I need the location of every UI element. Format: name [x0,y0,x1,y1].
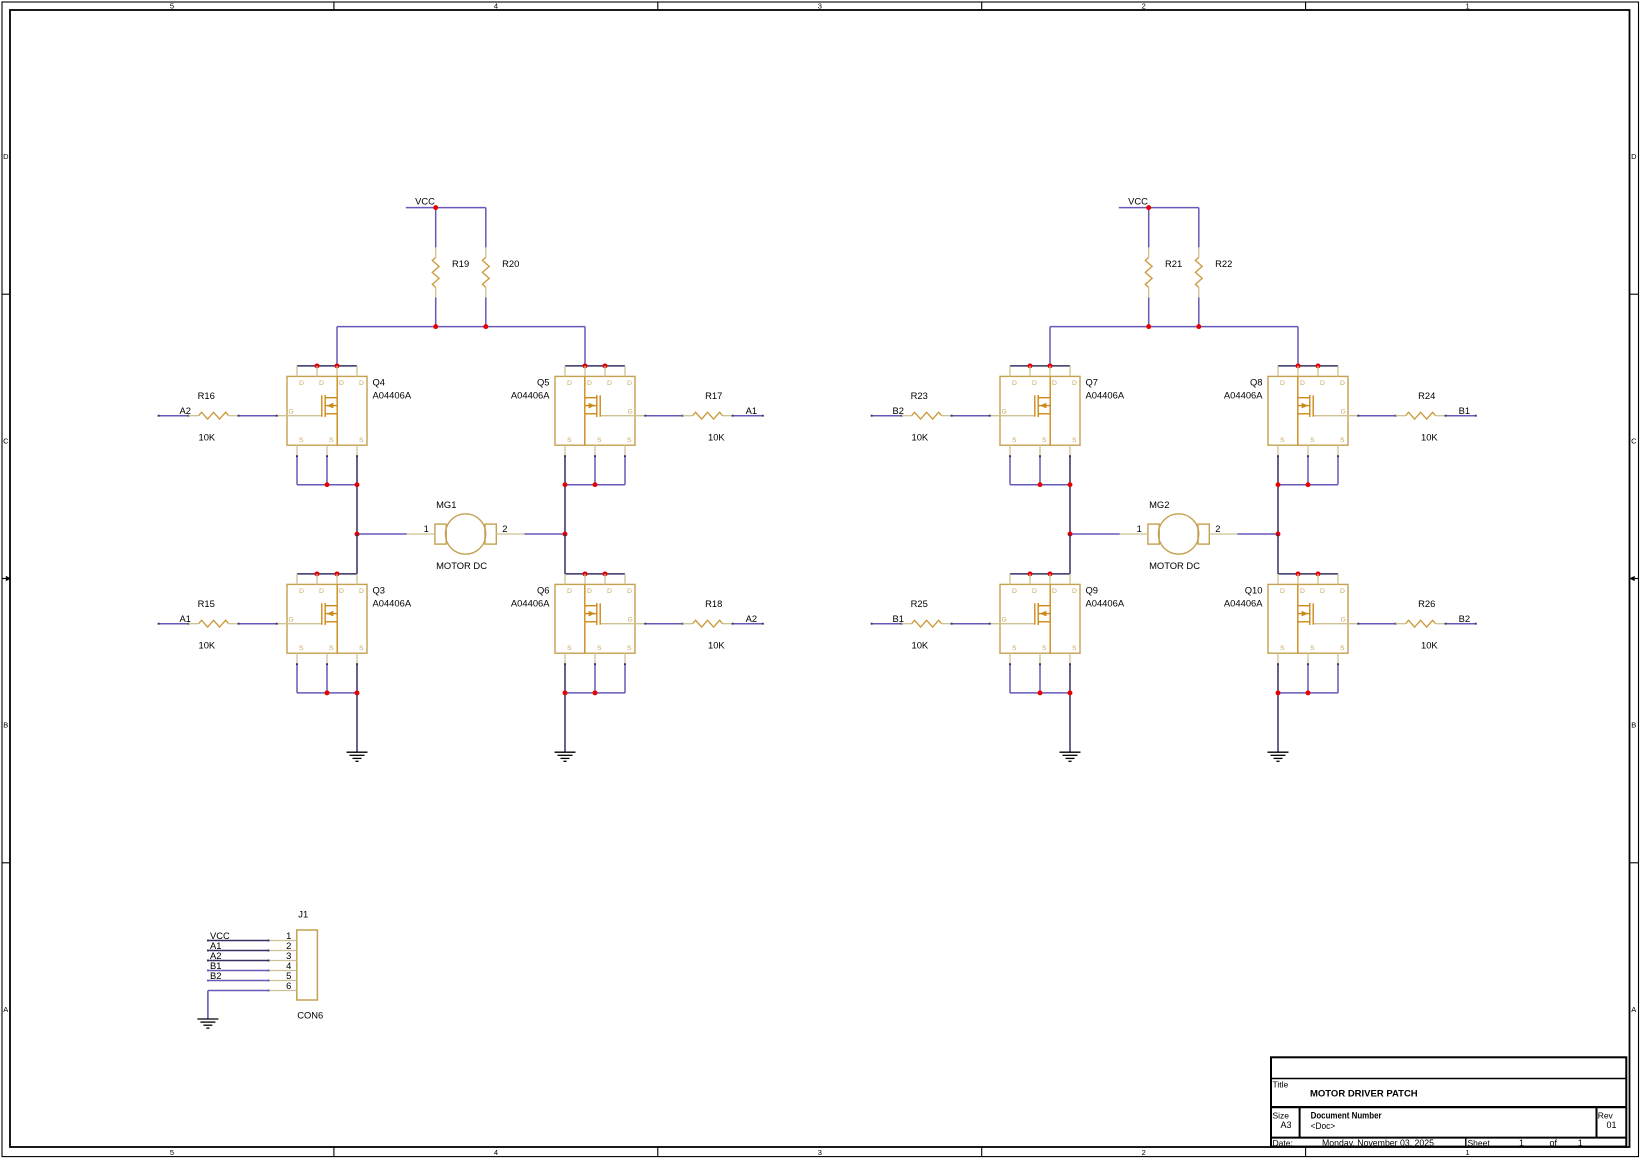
svg-text:VCC: VCC [415,196,435,207]
wire down to Q6 drain [564,534,566,574]
wire down to Q9 drain [1069,534,1071,574]
svg-text:D: D [1300,588,1305,595]
junction [1306,482,1311,487]
svg-text:A04406A: A04406A [1086,598,1125,609]
resistor R20 [482,247,519,297]
svg-text:10K: 10K [912,639,929,650]
svg-text:10K: 10K [912,431,929,442]
svg-text:Q4: Q4 [373,377,386,388]
border zone numbers top [170,2,1470,11]
wire source bus Q9 [1010,692,1070,694]
motor MG2 MOTOR DC [1120,499,1238,571]
svg-text:MG2: MG2 [1149,499,1169,510]
junction [1038,482,1043,487]
wire rail down to Q4 [336,327,338,366]
wire source stubs Q4 [296,455,328,484]
svg-text:R17: R17 [705,390,722,401]
junction [1068,690,1073,695]
svg-text:S: S [329,437,334,444]
wire rail down to Q8 [1297,327,1299,366]
svg-text:S: S [627,645,632,652]
junction [583,571,588,576]
svg-text:D: D [319,380,324,387]
resistor R18 10K [683,598,733,650]
wire drain rail [337,326,585,328]
svg-text:B2: B2 [210,970,221,981]
wire source bus Q8 [1278,484,1338,486]
junction [1028,571,1033,576]
svg-text:S: S [567,645,572,652]
wire motor left [357,533,407,535]
svg-text:2: 2 [1142,2,1146,11]
svg-text:2: 2 [1142,1148,1146,1157]
wire to gate [238,415,278,417]
junction [603,363,608,368]
svg-text:1: 1 [1137,523,1142,534]
svg-text:A1: A1 [180,613,191,624]
resistor R15 10K [189,598,239,650]
svg-text:1: 1 [1466,1148,1470,1157]
svg-text:G: G [1341,617,1346,624]
junction at VCC [433,205,438,210]
svg-text:D: D [299,588,304,595]
svg-text:A2: A2 [746,613,757,624]
junction [563,482,568,487]
svg-text:D: D [1052,380,1057,387]
wire J1 pin 6 [208,990,270,1019]
svg-text:Date:: Date: [1273,1138,1293,1148]
power symbol VCC [406,196,436,208]
wire RR21 to rail [1148,297,1150,326]
svg-text:S: S [1072,437,1077,444]
power symbol VCC [1119,196,1149,208]
svg-text:S: S [1042,437,1047,444]
junction motor left [355,532,360,537]
svg-text:R19: R19 [452,258,469,269]
svg-text:A04406A: A04406A [373,390,412,401]
transistor Q9 A04406A [990,574,1125,664]
wire rail down to Q5 [584,327,586,366]
wire drain bus Q6 [565,573,625,575]
svg-text:4: 4 [494,2,498,11]
border center arrow right [1629,576,1638,581]
transistor Q10 A04406A [1224,574,1358,664]
svg-text:D: D [607,380,612,387]
svg-text:A3: A3 [1281,1120,1292,1130]
wire down to resistor R22 [1198,208,1200,248]
svg-text:10K: 10K [1421,431,1438,442]
svg-text:S: S [597,437,602,444]
svg-text:S: S [1072,645,1077,652]
junction rail right [1196,324,1201,329]
svg-text:R23: R23 [911,390,928,401]
svg-text:2: 2 [1215,523,1220,534]
svg-text:of: of [1550,1138,1558,1148]
svg-text:10K: 10K [199,639,216,650]
wire net B2 [871,415,903,417]
junction motor left [1068,532,1073,537]
svg-text:C: C [1631,436,1637,445]
svg-text:S: S [1340,437,1345,444]
svg-text:S: S [359,437,364,444]
wire drain bus Q10 [1278,573,1338,575]
transistor Q5 A04406A [511,366,645,456]
svg-text:G: G [1002,617,1007,624]
junction [325,690,330,695]
svg-text:R24: R24 [1418,390,1435,401]
wire source bus Q5 [565,484,625,486]
wire J1 pin 4 [207,970,269,972]
border center arrow left [2,576,11,581]
wire from gate [644,623,683,625]
junction [583,363,588,368]
junction [1038,690,1043,695]
svg-text:D: D [359,380,364,387]
wire Q4 source down to motor row [356,455,358,534]
wire Q7 source down to motor row [1069,455,1071,534]
junction rail left [433,324,438,329]
svg-text:S: S [1340,645,1345,652]
junction rail left [1146,324,1151,329]
svg-text:S: S [299,645,304,652]
svg-text:D: D [3,152,9,161]
wire down to resistor R20 [485,208,487,248]
transistor Q6 A04406A [511,574,645,664]
wire drain bus Q8 [1278,365,1338,367]
svg-text:5: 5 [170,1148,174,1157]
svg-text:10K: 10K [708,639,725,650]
svg-text:D: D [1072,588,1077,595]
wire from gate [1357,415,1396,417]
wire net B2 [1445,623,1477,625]
svg-text:D: D [1280,588,1285,595]
svg-text:D: D [1320,380,1325,387]
svg-text:1: 1 [1466,2,1470,11]
wire drain rail [1050,326,1298,328]
title block [1271,1057,1626,1148]
wire to gate [951,623,991,625]
svg-text:Q5: Q5 [537,377,550,388]
svg-text:MOTOR DC: MOTOR DC [436,560,487,571]
svg-text:R15: R15 [198,598,215,609]
ground [1060,752,1081,761]
svg-text:1: 1 [1519,1138,1524,1148]
wire net A1 [732,415,764,417]
resistor R26 10K [1396,598,1446,650]
svg-text:S: S [299,437,304,444]
svg-text:S: S [597,645,602,652]
svg-text:D: D [627,588,632,595]
ground [555,752,576,761]
wire from gate [1357,623,1396,625]
ground [197,1019,218,1028]
resistor R24 10K [1396,390,1446,442]
wire source bus Q7 [1010,484,1070,486]
svg-text:G: G [289,617,294,624]
junction [315,571,320,576]
svg-text:G: G [289,409,294,416]
transistor Q3 A04406A [277,574,412,664]
svg-text:C: C [3,436,9,445]
svg-text:D: D [1032,380,1037,387]
svg-text:D: D [1340,380,1345,387]
svg-text:B: B [1631,721,1636,730]
junction [355,690,360,695]
junction [355,482,360,487]
wire Q9 source to ground [1069,663,1071,752]
svg-text:B2: B2 [1459,613,1470,624]
svg-text:Size: Size [1273,1110,1290,1120]
svg-text:G: G [1341,409,1346,416]
wire VCC to RR20 column [436,207,486,209]
svg-text:3: 3 [818,2,822,11]
svg-text:D: D [1280,380,1285,387]
wire drain bus Q3 [297,573,357,575]
svg-text:Monday, November 03, 2025: Monday, November 03, 2025 [1322,1138,1434,1148]
wire motor right [524,533,565,535]
wire J1 pin 1 [207,940,269,942]
svg-text:CON6: CON6 [297,1009,323,1020]
svg-text:3: 3 [818,1148,822,1157]
junction [563,690,568,695]
wire J1 pin 3 [207,960,269,962]
svg-text:A04406A: A04406A [1086,390,1125,401]
junction [1048,571,1053,576]
wire motor left [1070,533,1120,535]
junction [1276,690,1281,695]
svg-text:D: D [339,380,344,387]
svg-text:A04406A: A04406A [511,598,550,609]
wire drain bus Q4 [297,365,357,367]
svg-text:B1: B1 [893,613,904,624]
svg-text:S: S [1280,645,1285,652]
junction [1276,482,1281,487]
svg-text:10K: 10K [708,431,725,442]
wire to gate [951,415,991,417]
wire source stubs Q7 [1009,455,1041,484]
border zone letters right [1631,152,1637,1014]
svg-text:5: 5 [170,2,174,11]
junction [335,571,340,576]
svg-text:A1: A1 [746,405,757,416]
svg-text:D: D [1072,380,1077,387]
svg-text:G: G [628,617,633,624]
junction [315,363,320,368]
svg-text:S: S [1042,645,1047,652]
junction motor right [1276,532,1281,537]
wire motor right [1237,533,1278,535]
junction motor right [563,532,568,537]
svg-text:J1: J1 [298,909,308,920]
svg-text:MG1: MG1 [436,499,456,510]
svg-text:Rev: Rev [1598,1110,1614,1120]
svg-text:R16: R16 [198,390,215,401]
wire source bus Q4 [297,484,357,486]
svg-text:A: A [3,1005,8,1014]
wire down to Q10 drain [1277,534,1279,574]
resistor R25 10K [902,598,952,650]
ground [1268,752,1289,761]
svg-text:D: D [567,588,572,595]
junction [1068,482,1073,487]
wire down to resistor R21 [1148,208,1150,248]
svg-text:R20: R20 [502,258,519,269]
svg-text:R18: R18 [705,598,722,609]
svg-text:D: D [359,588,364,595]
svg-text:2: 2 [502,523,507,534]
svg-text:S: S [359,645,364,652]
svg-text:1: 1 [424,523,429,534]
junction [1316,363,1321,368]
svg-text:A04406A: A04406A [1224,390,1263,401]
motor MG1 MOTOR DC [407,499,525,571]
svg-text:D: D [567,380,572,387]
svg-text:S: S [1310,645,1315,652]
junction [1306,690,1311,695]
resistor R22 [1195,247,1232,297]
junction [1028,363,1033,368]
junction [1296,363,1301,368]
wire down to Q3 drain [356,534,358,574]
wire source stubs Q6 [594,663,626,693]
svg-text:01: 01 [1607,1120,1617,1130]
wire source stubs Q8 [1307,455,1339,484]
svg-text:A04406A: A04406A [511,390,550,401]
wire source bus Q3 [297,692,357,694]
svg-text:Sheet: Sheet [1468,1138,1491,1148]
svg-text:D: D [587,588,592,595]
transistor Q8 A04406A [1224,366,1358,456]
wire net B1 [1445,415,1477,417]
junction [1048,363,1053,368]
wire to gate [238,623,278,625]
junction [325,482,330,487]
svg-text:Q8: Q8 [1250,377,1263,388]
wire RR20 to rail [485,297,487,326]
junction [593,690,598,695]
svg-text:S: S [1280,437,1285,444]
wire net B1 [871,623,903,625]
wire from gate [644,415,683,417]
border zone letters left [3,152,9,1014]
transistor Q4 A04406A [277,366,412,456]
svg-text:D: D [1012,380,1017,387]
svg-text:Q3: Q3 [373,585,386,596]
svg-text:A: A [1631,1005,1636,1014]
svg-text:D: D [1012,588,1017,595]
wire drain bus Q9 [1010,573,1070,575]
svg-text:6: 6 [286,980,291,991]
svg-text:B1: B1 [1459,405,1470,416]
svg-text:<Doc>: <Doc> [1311,1121,1336,1131]
wire source bus Q6 [565,692,625,694]
svg-text:Document Number: Document Number [1311,1110,1382,1120]
junction [603,571,608,576]
wire down to resistor R19 [435,208,437,248]
svg-text:D: D [1300,380,1305,387]
svg-text:D: D [1340,588,1345,595]
wire net A2 [732,623,764,625]
junction [593,482,598,487]
wire source bus Q10 [1278,692,1338,694]
wire source stubs Q9 [1009,663,1041,693]
wire J1 pin 5 [207,980,269,982]
svg-text:D: D [627,380,632,387]
svg-text:S: S [329,645,334,652]
junction [335,363,340,368]
svg-text:B2: B2 [893,405,904,416]
svg-text:D: D [1631,152,1637,161]
junction [1296,571,1301,576]
wire Q5 source down to motor row [564,455,566,534]
svg-text:S: S [1012,645,1017,652]
resistor R19 [432,247,469,297]
svg-text:10K: 10K [199,431,216,442]
wire Q8 source down to motor row [1277,455,1279,534]
junction rail right [483,324,488,329]
border zone numbers bottom [170,1148,1470,1157]
wire drain bus Q5 [565,365,625,367]
svg-text:R26: R26 [1418,598,1435,609]
svg-text:D: D [1052,588,1057,595]
svg-text:S: S [567,437,572,444]
svg-text:D: D [587,380,592,387]
wire RR19 to rail [435,297,437,326]
svg-text:MOTOR DC: MOTOR DC [1149,560,1200,571]
svg-text:S: S [1310,437,1315,444]
svg-text:G: G [628,409,633,416]
svg-text:S: S [1012,437,1017,444]
svg-text:D: D [1032,588,1037,595]
svg-text:D: D [299,380,304,387]
svg-text:Title: Title [1273,1080,1289,1090]
svg-text:MOTOR DRIVER PATCH: MOTOR DRIVER PATCH [1310,1088,1418,1099]
wire net A2 [158,415,190,417]
wire source stubs Q5 [594,455,626,484]
svg-text:S: S [627,437,632,444]
junction at VCC [1146,205,1151,210]
svg-text:1: 1 [1578,1138,1583,1148]
wire Q10 source to ground [1277,663,1279,752]
wire source stubs Q3 [296,663,328,693]
ground [347,752,368,761]
svg-text:4: 4 [494,1148,498,1157]
svg-text:R21: R21 [1165,258,1182,269]
resistor R21 [1145,247,1182,297]
svg-text:Q10: Q10 [1245,585,1263,596]
svg-text:D: D [319,588,324,595]
resistor R17 10K [683,390,733,442]
transistor Q7 A04406A [990,366,1125,456]
wire source stubs Q10 [1307,663,1339,693]
wire Q6 source to ground [564,663,566,752]
svg-text:B: B [3,721,8,730]
svg-text:Q9: Q9 [1086,585,1099,596]
wire RR22 to rail [1198,297,1200,326]
svg-text:G: G [1002,409,1007,416]
junction [1316,571,1321,576]
wire Q3 source to ground [356,663,358,752]
svg-text:R22: R22 [1215,258,1232,269]
svg-text:R25: R25 [911,598,928,609]
wire VCC to RR22 column [1149,207,1199,209]
svg-text:Q7: Q7 [1086,377,1099,388]
svg-text:Q6: Q6 [537,585,550,596]
wire rail down to Q7 [1049,327,1051,366]
svg-text:D: D [607,588,612,595]
resistor R23 10K [902,390,952,442]
svg-text:10K: 10K [1421,639,1438,650]
